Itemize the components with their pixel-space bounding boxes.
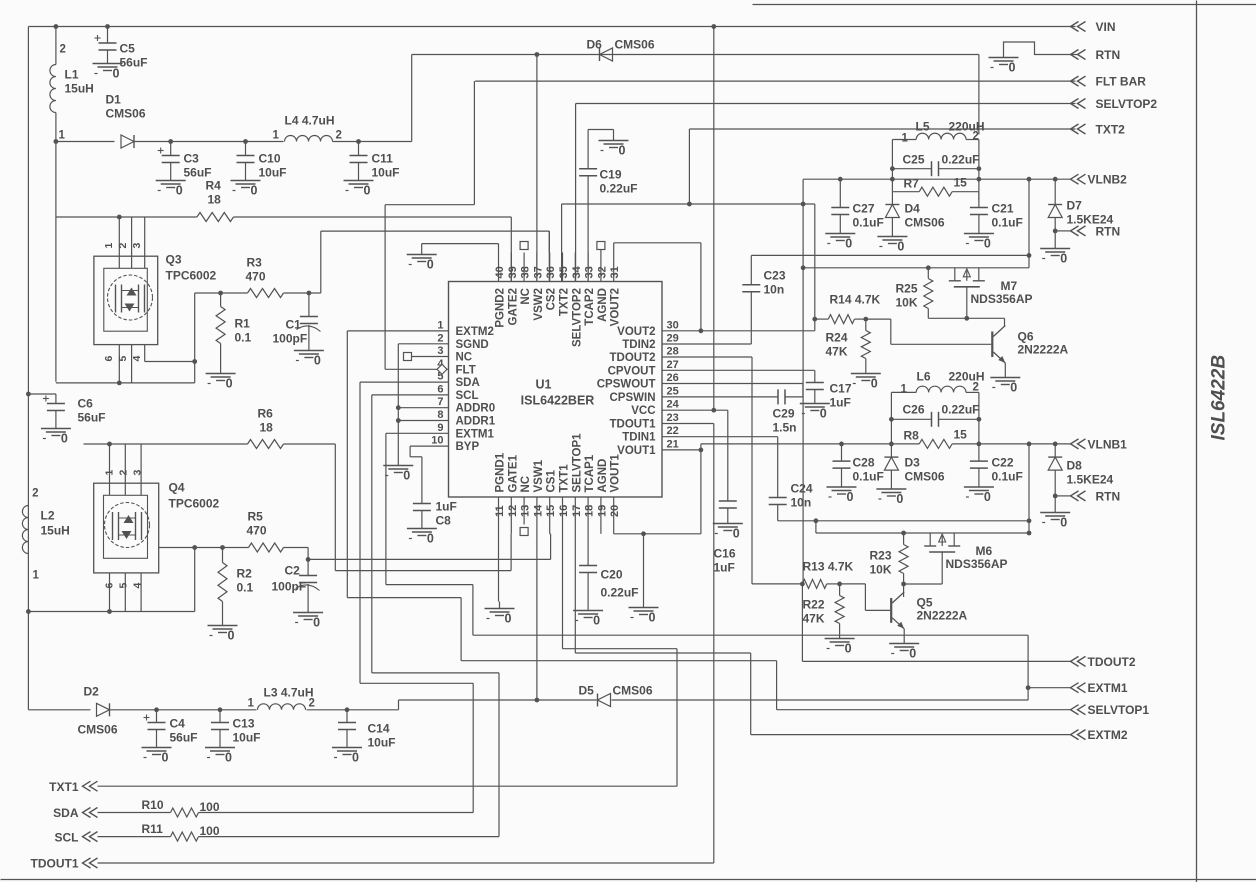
svg-text:13: 13 xyxy=(520,505,532,517)
svg-text:1uF: 1uF xyxy=(714,561,735,575)
ground under C5 xyxy=(93,57,123,81)
node Q3 gate column on R4 row xyxy=(117,215,122,220)
pin 13 NC (bottom) xyxy=(520,476,533,525)
svg-text:VLNB2: VLNB2 xyxy=(1088,173,1128,187)
svg-text:0: 0 xyxy=(984,490,991,504)
svg-text:C14: C14 xyxy=(368,722,390,736)
pin 20 VOUT1 (bottom) xyxy=(609,454,622,525)
transistor Q6 2N2222A xyxy=(992,326,1068,371)
svg-text:10n: 10n xyxy=(764,283,785,297)
resistor R4 18 xyxy=(197,179,234,222)
connector SCL xyxy=(55,831,98,845)
pin 39 GATE2 (top) xyxy=(507,253,520,326)
wire SCL jog (pin6 riser) xyxy=(372,395,499,837)
svg-text:CPSWIN: CPSWIN xyxy=(610,392,656,404)
ground under D4 xyxy=(877,230,907,254)
svg-text:D2: D2 xyxy=(84,685,100,699)
wire L6 left rail xyxy=(891,392,916,445)
svg-text:38: 38 xyxy=(520,266,532,278)
wire R23/M6/Q5 collector row xyxy=(901,582,942,597)
svg-text:VOUT2: VOUT2 xyxy=(610,288,622,326)
svg-text:2: 2 xyxy=(973,382,979,394)
svg-text:15: 15 xyxy=(545,505,557,517)
wire Q5 base feed xyxy=(840,584,891,611)
svg-text:10uF: 10uF xyxy=(368,736,396,750)
svg-text:SDA: SDA xyxy=(53,806,79,820)
capacitor C16 1uF xyxy=(714,501,737,575)
svg-text:VCC: VCC xyxy=(631,405,655,417)
diode D7 1.5KE24 xyxy=(1048,179,1113,241)
svg-text:0: 0 xyxy=(313,616,320,630)
svg-text:TCAP2: TCAP2 xyxy=(584,288,596,326)
connector RTN (VLNB1) xyxy=(1055,490,1120,504)
wire TDOUT2 drop xyxy=(801,584,803,662)
ground under C8 xyxy=(407,522,437,546)
svg-text:0: 0 xyxy=(820,407,827,421)
svg-text:M7: M7 xyxy=(1001,279,1018,293)
wire pin24 VCC row xyxy=(662,410,728,501)
wire FLT BAR line xyxy=(475,80,1075,82)
wire pin29 TDIN2 row to C23 xyxy=(662,292,751,344)
svg-text:0.22uF: 0.22uF xyxy=(601,586,639,600)
svg-text:0: 0 xyxy=(228,629,235,643)
wire pin27 CPVOUT row to C17 xyxy=(662,370,815,382)
pin 4 FLT (left) xyxy=(437,358,475,377)
node R2 top xyxy=(220,545,225,550)
svg-text:L1: L1 xyxy=(65,68,79,82)
svg-text:6: 6 xyxy=(437,383,443,395)
svg-text:0: 0 xyxy=(847,490,854,504)
ISL6422B title (rotated) xyxy=(1209,355,1230,441)
svg-text:SCL: SCL xyxy=(456,390,479,402)
wire pin26 CPSWOUT row xyxy=(662,384,803,397)
capacitor C23 10n xyxy=(742,255,786,296)
svg-text:NC: NC xyxy=(520,476,532,493)
ground under C10 xyxy=(231,174,261,198)
pin 29 TDIN2 (right) xyxy=(622,333,678,352)
svg-text:15: 15 xyxy=(954,176,968,190)
node C4 tee xyxy=(154,707,159,712)
svg-text:L6: L6 xyxy=(917,370,931,384)
svg-text:100pF: 100pF xyxy=(273,332,308,346)
pin 1 EXTM2 wire xyxy=(347,331,776,661)
pin 2 SGND wire to ground xyxy=(398,344,448,459)
svg-text:1: 1 xyxy=(273,130,280,142)
svg-text:16: 16 xyxy=(558,505,570,517)
pin 28 TDOUT2 (right) xyxy=(610,346,679,365)
connector VIN xyxy=(1071,20,1116,34)
svg-text:C10: C10 xyxy=(259,152,281,166)
node D1 row start xyxy=(54,139,59,144)
pin 30 VOUT2 (right) xyxy=(617,319,679,338)
wire pin30 VOUT2 row xyxy=(662,328,815,333)
wire CS2 sense line (R3 junction up and right to pin36) xyxy=(321,231,550,293)
svg-text:30: 30 xyxy=(667,319,679,331)
resistor R24 47K xyxy=(826,319,871,366)
wire AGND pin19 stub xyxy=(600,525,602,534)
svg-text:31: 31 xyxy=(609,266,621,278)
svg-text:C8: C8 xyxy=(436,514,452,528)
wire SELVTOP1 line xyxy=(777,709,1071,711)
svg-text:0: 0 xyxy=(427,532,434,546)
svg-text:VOUT2: VOUT2 xyxy=(617,326,655,338)
svg-text:10uF: 10uF xyxy=(372,166,400,180)
svg-text:D4: D4 xyxy=(905,202,921,216)
svg-text:TCAP1: TCAP1 xyxy=(584,454,596,492)
node R22 top xyxy=(837,582,842,587)
wire L5 left rail xyxy=(892,140,916,192)
pin 25 CPSWIN (right) xyxy=(610,385,679,404)
capacitor C24 10n xyxy=(769,482,813,521)
svg-text:32: 32 xyxy=(596,266,608,278)
svg-text:ADDR0: ADDR0 xyxy=(456,403,496,415)
svg-text:6: 6 xyxy=(104,583,116,589)
svg-text:29: 29 xyxy=(667,333,679,345)
wire VSW2 riser to D6 row xyxy=(536,55,538,282)
svg-text:SGND: SGND xyxy=(456,339,489,351)
svg-text:2: 2 xyxy=(60,44,66,56)
svg-text:7: 7 xyxy=(437,396,443,408)
svg-text:0: 0 xyxy=(845,642,852,656)
svg-text:EXTM2: EXTM2 xyxy=(1088,728,1128,742)
svg-text:TDIN1: TDIN1 xyxy=(622,432,656,444)
pin 37 VSW2 (top) xyxy=(532,253,545,321)
resistor R11 100 xyxy=(98,822,220,841)
svg-text:RTN: RTN xyxy=(1096,225,1121,239)
diode D8 1.5KE24 xyxy=(1048,444,1113,506)
svg-text:ISL6422BER: ISL6422BER xyxy=(521,394,595,408)
svg-text:33: 33 xyxy=(584,266,596,278)
capacitor C20 0.22uF (on TCAP1) xyxy=(579,525,638,604)
svg-text:RTN: RTN xyxy=(1096,490,1121,504)
wire Q3 gate jog xyxy=(145,359,197,364)
capacitor C11 10uF xyxy=(350,142,400,180)
ground under R1 xyxy=(206,367,236,391)
pin 11 PGND1 (bottom) xyxy=(494,452,507,524)
inductor L3 4.7uH xyxy=(248,686,315,710)
svg-text:18: 18 xyxy=(584,505,596,517)
connector TDOUT1 xyxy=(31,857,98,871)
svg-text:0: 0 xyxy=(1010,381,1017,395)
svg-text:C17: C17 xyxy=(830,382,852,396)
ground under C13 xyxy=(205,741,235,765)
wire Q4 riser to R2/R5 row xyxy=(159,545,223,611)
svg-text:C23: C23 xyxy=(764,269,786,283)
svg-text:1: 1 xyxy=(103,243,115,249)
page top border line xyxy=(753,4,1256,6)
svg-text:C21: C21 xyxy=(992,202,1014,216)
wire D5 row xyxy=(399,698,1029,703)
svg-text:0: 0 xyxy=(649,611,656,625)
resistor R1 0.1 xyxy=(216,293,251,367)
svg-text:PGND2: PGND2 xyxy=(495,288,507,328)
connector VLNB1 xyxy=(1071,437,1128,451)
node VSW2 tap on D6 row xyxy=(535,52,540,57)
svg-text:Q4: Q4 xyxy=(169,481,185,495)
svg-text:NC: NC xyxy=(456,352,473,364)
wire R5 to CS1 row xyxy=(308,534,550,560)
node C11 tee xyxy=(356,139,361,144)
svg-text:TDOUT2: TDOUT2 xyxy=(1088,655,1136,669)
svg-text:D7: D7 xyxy=(1067,199,1083,213)
svg-text:Q3: Q3 xyxy=(166,253,182,267)
resistor R22 47K xyxy=(803,584,845,632)
svg-text:EXTM2: EXTM2 xyxy=(456,326,494,338)
capacitor C8 1uF xyxy=(413,500,457,528)
wire TDOUT1 row xyxy=(98,424,714,864)
wire VIN drop column xyxy=(713,27,715,411)
svg-text:R24: R24 xyxy=(826,331,848,345)
wire EXTM1 line xyxy=(1028,687,1070,689)
ground under C27 xyxy=(825,227,855,251)
wire left border vertical (VIN to L2/D2) xyxy=(27,27,29,710)
pin 21 VOUT1 (right) xyxy=(617,438,679,457)
svg-text:0.22uF: 0.22uF xyxy=(942,403,980,417)
svg-text:L3 4.7uH: L3 4.7uH xyxy=(264,686,314,700)
wire pin28 TDOUT2 riser xyxy=(662,357,752,584)
svg-text:0: 0 xyxy=(251,184,258,198)
node C2 top xyxy=(306,557,311,562)
svg-text:R2: R2 xyxy=(237,567,253,581)
wire TDOUT2 line xyxy=(802,660,1070,662)
svg-text:R3: R3 xyxy=(247,256,263,270)
svg-text:C29: C29 xyxy=(773,407,795,421)
connector TXT2 xyxy=(1071,123,1126,137)
svg-text:VOUT1: VOUT1 xyxy=(617,445,656,457)
svg-text:VSW2: VSW2 xyxy=(533,288,545,321)
svg-text:0: 0 xyxy=(61,432,68,446)
pin 6 SCL (left) xyxy=(437,383,478,402)
svg-text:D8: D8 xyxy=(1067,459,1083,473)
ground under D7 xyxy=(1040,242,1070,266)
inductor L4 4.7uH xyxy=(273,114,342,142)
capacitor C2 100pF xyxy=(272,559,320,605)
svg-text:CPSWOUT: CPSWOUT xyxy=(597,379,656,391)
ground under C2 xyxy=(293,606,323,630)
pin 23 TDOUT1 (right) xyxy=(610,412,679,431)
pin 17 SELVTOP1 (bottom) xyxy=(571,433,584,525)
wire VLNB1 right drop column xyxy=(1028,444,1030,533)
svg-text:VOUT1: VOUT1 xyxy=(610,454,622,493)
resistor R2 0.1 xyxy=(218,548,254,619)
svg-text:1: 1 xyxy=(437,319,443,331)
ground PGND2 xyxy=(407,248,437,272)
pin 16 TXT1 (bottom) xyxy=(558,464,571,525)
wire C14 row step up to D5 row xyxy=(398,700,400,710)
svg-text:D3: D3 xyxy=(905,456,921,470)
transistor Q3 TPC6002 xyxy=(94,217,217,383)
wire VOUT1 pin20 tie xyxy=(614,444,701,534)
pin 38 NC (top) xyxy=(520,253,533,305)
svg-text:PGND1: PGND1 xyxy=(495,452,507,492)
pin 24 VCC (right) xyxy=(631,399,679,418)
wire pin17 SELVTOP1 jog to EXTM2 riser xyxy=(575,525,750,654)
svg-text:TXT2: TXT2 xyxy=(559,288,571,316)
resistor R13 4.7K xyxy=(802,560,853,589)
resistor R8 15 (inline on VLNB1 row) xyxy=(904,428,968,449)
capacitor C19 0.22uF (on TCAP2) xyxy=(579,130,637,282)
pin 14 VSW1 (bottom) xyxy=(532,459,545,524)
svg-text:0.1uF: 0.1uF xyxy=(853,216,884,230)
connector SELVTOP2 xyxy=(1071,97,1158,111)
transistor M7 NDS356AP xyxy=(949,268,1033,319)
resistor R6 18 xyxy=(248,407,284,449)
svg-text:22: 22 xyxy=(667,425,679,437)
svg-text:25: 25 xyxy=(667,385,679,397)
svg-text:56uF: 56uF xyxy=(184,166,212,180)
wire CS1 stub xyxy=(549,525,552,534)
svg-text:C27: C27 xyxy=(853,202,875,216)
svg-text:C20: C20 xyxy=(601,568,623,582)
ground under C14 xyxy=(332,741,362,765)
ground under C4 xyxy=(142,741,172,765)
page right border line xyxy=(1196,1,1198,882)
transistor M6 NDS356AP xyxy=(924,533,1007,584)
svg-text:TXT1: TXT1 xyxy=(49,780,79,794)
wire rail2b left riser xyxy=(814,518,819,533)
pin 27 CPVOUT (right) xyxy=(608,359,679,378)
svg-text:D1: D1 xyxy=(106,93,122,107)
pin 9 EXTM1 (left) xyxy=(437,422,494,441)
svg-text:GATE1: GATE1 xyxy=(507,454,519,492)
svg-text:0.1uF: 0.1uF xyxy=(853,470,884,484)
svg-text:0: 0 xyxy=(984,237,991,251)
diode D4 CMS06 xyxy=(885,192,944,230)
svg-text:0.22uF: 0.22uF xyxy=(600,182,638,196)
svg-text:2: 2 xyxy=(118,470,130,476)
svg-text:10: 10 xyxy=(431,435,443,447)
svg-text:470: 470 xyxy=(247,524,267,538)
ground under C3 xyxy=(156,174,186,198)
svg-text:1: 1 xyxy=(902,133,909,145)
inductor L2 15uH xyxy=(22,488,69,582)
pin 5 SDA wire xyxy=(360,381,449,383)
svg-text:36: 36 xyxy=(545,266,557,278)
svg-text:RTN: RTN xyxy=(1096,48,1121,62)
node C6 tee on left border xyxy=(26,392,31,397)
pin 5 SDA (left) xyxy=(437,371,479,390)
ground mid (AGND) xyxy=(629,601,659,625)
svg-text:2N2222A: 2N2222A xyxy=(917,608,968,622)
svg-text:TPC6002: TPC6002 xyxy=(169,497,220,511)
capacitor C26 0.22uF xyxy=(889,403,981,427)
node Q4 column on R6 row xyxy=(107,442,112,447)
svg-text:D6: D6 xyxy=(587,38,603,52)
svg-text:14: 14 xyxy=(532,504,544,517)
svg-text:FLT: FLT xyxy=(456,364,476,376)
ground under C6 xyxy=(41,422,71,446)
wire rail2 (M7 source rail) xyxy=(803,265,1029,270)
wire Q3 source riser to R1/R3 row xyxy=(195,293,221,383)
svg-text:35: 35 xyxy=(558,266,570,278)
wire VLNB1 row xyxy=(701,442,1071,447)
svg-text:0.1: 0.1 xyxy=(235,331,252,345)
svg-text:0: 0 xyxy=(619,144,626,158)
svg-text:TDIN2: TDIN2 xyxy=(622,339,655,351)
svg-text:24: 24 xyxy=(667,399,680,411)
capacitor C1 100pF xyxy=(273,293,321,346)
svg-text:BYP: BYP xyxy=(456,441,480,453)
NC square pin 32 xyxy=(597,242,605,253)
svg-text:CMS06: CMS06 xyxy=(613,684,653,698)
connector TDOUT2 xyxy=(1071,655,1136,669)
svg-text:CMS06: CMS06 xyxy=(905,470,945,484)
svg-text:0.1uF: 0.1uF xyxy=(992,216,1023,230)
connector EXTM2 xyxy=(1071,728,1128,742)
svg-text:3: 3 xyxy=(437,345,443,357)
svg-text:TPC6002: TPC6002 xyxy=(166,269,217,283)
svg-text:CS2: CS2 xyxy=(546,288,558,310)
svg-text:56uF: 56uF xyxy=(170,731,198,745)
pin 15 CS1 (bottom) xyxy=(545,470,558,525)
svg-text:6: 6 xyxy=(103,356,115,362)
svg-text:L2: L2 xyxy=(41,509,55,523)
pin 19 AGND (bottom) xyxy=(596,459,609,525)
svg-text:1: 1 xyxy=(248,698,255,710)
svg-text:4: 4 xyxy=(131,356,143,362)
svg-text:47K: 47K xyxy=(803,612,825,626)
svg-text:0: 0 xyxy=(871,377,878,391)
wire R6 row xyxy=(84,443,336,445)
svg-text:SELVTOP1: SELVTOP1 xyxy=(571,433,583,493)
ground PGND1 xyxy=(485,602,515,626)
svg-text:R22: R22 xyxy=(803,598,825,612)
pin 4 FLT wire + diamond xyxy=(385,364,448,374)
svg-text:TDOUT1: TDOUT1 xyxy=(610,419,657,431)
ground under C22 xyxy=(964,480,994,504)
transistor Q4 TPC6002 xyxy=(94,444,220,612)
svg-text:2: 2 xyxy=(309,698,315,710)
wire pin23 TDOUT1 row xyxy=(662,423,714,425)
svg-text:EXTM1: EXTM1 xyxy=(1088,681,1128,695)
svg-text:TDOUT1: TDOUT1 xyxy=(31,857,79,871)
wire GATE1 stub xyxy=(510,525,512,534)
svg-text:R6: R6 xyxy=(258,407,274,421)
svg-text:C13: C13 xyxy=(233,717,255,731)
svg-text:1: 1 xyxy=(59,130,66,142)
wire D1/C3/C10/L4 row xyxy=(171,141,412,143)
svg-text:3: 3 xyxy=(132,470,144,476)
node VIN/VCC-drop junction xyxy=(711,24,716,29)
connector VLNB2 xyxy=(1071,173,1128,187)
svg-text:CPVOUT: CPVOUT xyxy=(608,365,656,377)
svg-text:C5: C5 xyxy=(120,42,136,56)
node C14 tee xyxy=(345,707,350,712)
capacitor C27 0.1uF xyxy=(831,179,884,229)
ground under C17 xyxy=(800,397,830,421)
svg-text:9: 9 xyxy=(437,422,443,434)
pin 31 VOUT2 (top) xyxy=(609,253,622,327)
transistor Q5 2N2222A xyxy=(891,592,967,637)
svg-text:GATE2: GATE2 xyxy=(507,288,519,326)
wire SCL row to riser xyxy=(199,836,500,838)
ground under C1 xyxy=(294,344,324,368)
svg-text:11: 11 xyxy=(494,505,506,517)
pin 34 SELVTOP2 (top) xyxy=(571,253,584,348)
pin 8 ADDR1 (left) xyxy=(437,409,495,428)
svg-text:1: 1 xyxy=(901,384,908,396)
svg-text:18: 18 xyxy=(260,421,274,435)
svg-text:0: 0 xyxy=(896,492,903,506)
ground above C19 xyxy=(599,134,629,158)
svg-text:2: 2 xyxy=(437,332,443,344)
svg-text:R8: R8 xyxy=(904,429,920,443)
connector TXT1 xyxy=(49,780,97,794)
diode D5 CMS06 xyxy=(579,684,653,707)
resistor R10 100 xyxy=(98,798,220,817)
diode D2 CMS06 xyxy=(28,685,156,737)
svg-text:15uH: 15uH xyxy=(41,524,70,538)
